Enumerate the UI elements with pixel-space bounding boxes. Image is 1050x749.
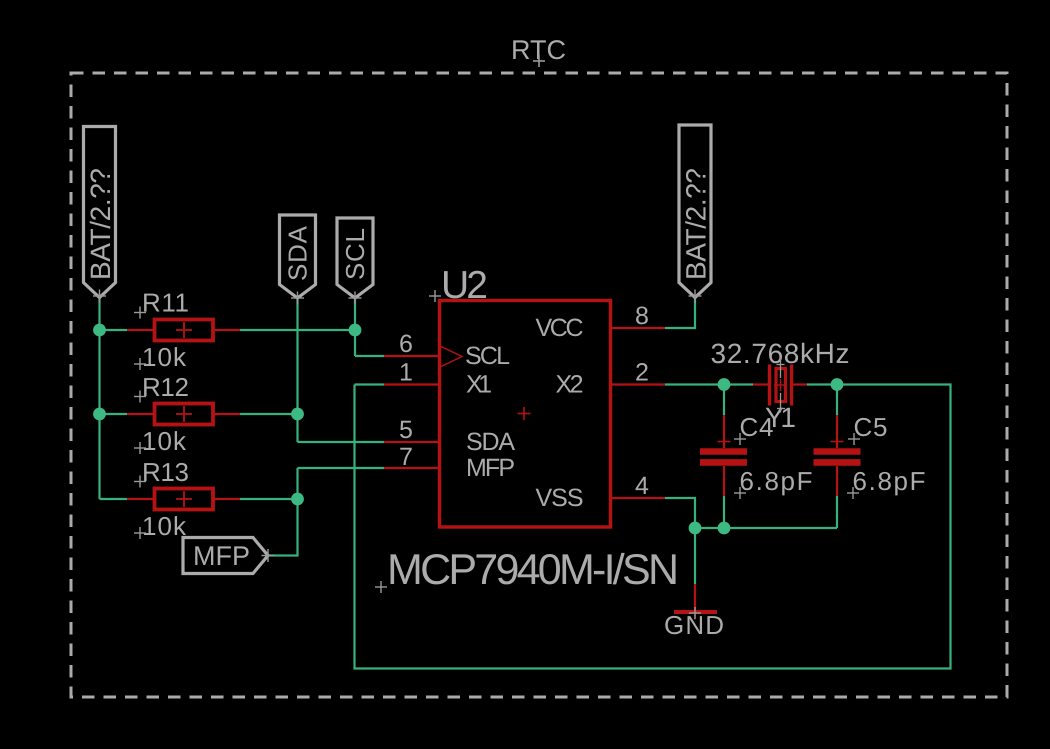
svg-text:5: 5 — [399, 416, 413, 444]
crystal Y1 center cross — [774, 379, 787, 391]
wire BAT left rail vertical — [98, 298, 100, 500]
U2 pin 6 lead — [384, 355, 440, 357]
U2 clock wedge on pin 6 — [440, 346, 462, 367]
wire X1 stub — [355, 383, 385, 385]
svg-text:7: 7 — [399, 443, 413, 471]
wire crystal to C5 node — [807, 383, 837, 385]
ground anchor cross — [689, 607, 701, 619]
wire SCL vertical — [354, 298, 356, 356]
svg-text:10k: 10k — [142, 426, 187, 456]
wire C5 bottom — [836, 496, 838, 528]
sheet border (dashed) — [71, 73, 1007, 697]
wire SDA vertical — [296, 298, 298, 442]
U2 value anchor — [375, 581, 387, 593]
wire MFP label to corner — [268, 468, 298, 556]
svg-text:SCL: SCL — [465, 342, 510, 370]
U2 pin 2 lead — [611, 383, 666, 385]
svg-text:C4: C4 — [740, 412, 774, 442]
svg-text:MFP: MFP — [193, 541, 250, 571]
svg-text:VSS: VSS — [536, 484, 584, 512]
U2 pin 1 lead — [384, 383, 440, 385]
svg-text:U2: U2 — [441, 264, 488, 307]
node GND/C4 junction — [718, 522, 731, 535]
node R13/MFP junction — [291, 493, 304, 506]
wire C4 top — [723, 385, 725, 416]
wire R12 left stub — [100, 413, 128, 415]
R12 text anchors — [134, 391, 146, 455]
svg-text:R13: R13 — [142, 457, 189, 487]
wire X1 loop (left, bottom, right, top) — [355, 385, 951, 669]
node BAT/R11 junction — [93, 324, 106, 337]
C4 text anchors — [734, 433, 746, 499]
svg-text:10k: 10k — [142, 511, 187, 541]
wire pin 2 to crystal — [665, 383, 753, 385]
C5 text anchors — [847, 433, 860, 499]
wire C5 top — [836, 385, 838, 416]
sheet name anchor cross — [533, 55, 545, 67]
svg-text:6.8pF: 6.8pF — [740, 466, 813, 496]
wire R12 right to SDA node — [240, 413, 298, 415]
wire R11 left stub — [100, 329, 128, 331]
svg-text:R11: R11 — [142, 288, 189, 318]
svg-text:X1: X1 — [466, 371, 492, 399]
U2 center anchor cross — [518, 407, 531, 420]
svg-text:10k: 10k — [142, 342, 187, 372]
wire MFP to pin 7 — [298, 467, 385, 469]
svg-text:6: 6 — [399, 330, 413, 358]
wire bottom bus C4-C5 — [695, 527, 837, 529]
wire R11 right to SCL node — [240, 329, 355, 331]
U2 pin 8 lead — [611, 327, 666, 329]
svg-text:MCP7940M-I/SN: MCP7940M-I/SN — [387, 546, 679, 594]
U2 pin 4 lead — [611, 497, 666, 499]
node GND/pin4 junction — [689, 522, 702, 535]
node R11/SCL junction — [349, 324, 362, 337]
svg-text:SDA: SDA — [283, 225, 313, 281]
U2 ref anchor — [429, 290, 441, 302]
svg-text:SDA: SDA — [466, 428, 515, 456]
svg-text:4: 4 — [635, 472, 649, 500]
svg-text:8: 8 — [635, 302, 649, 330]
svg-text:SCL: SCL — [340, 228, 370, 280]
node R12/SDA junction — [291, 408, 304, 421]
U2 pin 5 lead — [384, 441, 440, 443]
svg-text:2: 2 — [635, 359, 649, 387]
R13 text anchors — [134, 476, 146, 540]
U2 pin 7 lead — [384, 467, 440, 469]
svg-text:X2: X2 — [556, 371, 584, 399]
wire R13 right to MFP node — [240, 498, 298, 500]
node X2/C4 junction — [718, 378, 731, 391]
svg-text:R12: R12 — [142, 372, 189, 402]
svg-text:GND: GND — [664, 610, 724, 640]
crystal Y1 ref anchor — [777, 393, 785, 413]
wire pin 4 to corner — [665, 498, 695, 528]
svg-text:BAT/2.??: BAT/2.?? — [85, 168, 116, 280]
svg-text:1: 1 — [399, 359, 413, 387]
node BAT/R12 junction — [93, 408, 106, 421]
wire R13 left stub — [100, 498, 128, 500]
wire SDA to pin 5 — [298, 441, 385, 443]
op-amp-style body rectangle U2 — [440, 301, 611, 528]
wire GND drop — [694, 528, 696, 584]
svg-text:6.8pF: 6.8pF — [853, 466, 926, 496]
svg-text:VCC: VCC — [536, 314, 584, 342]
svg-text:MFP: MFP — [466, 454, 515, 482]
svg-text:C5: C5 — [854, 412, 888, 442]
wire pin 8 to BAT label — [665, 298, 695, 329]
svg-text:BAT/2.??: BAT/2.?? — [681, 168, 712, 280]
wire C4 bottom — [723, 496, 725, 528]
R11 text anchors — [134, 307, 146, 371]
crystal Y1 value anchor — [777, 357, 785, 378]
wire SCL to pin 6 — [355, 355, 384, 357]
node X2/C5 junction — [831, 378, 844, 391]
